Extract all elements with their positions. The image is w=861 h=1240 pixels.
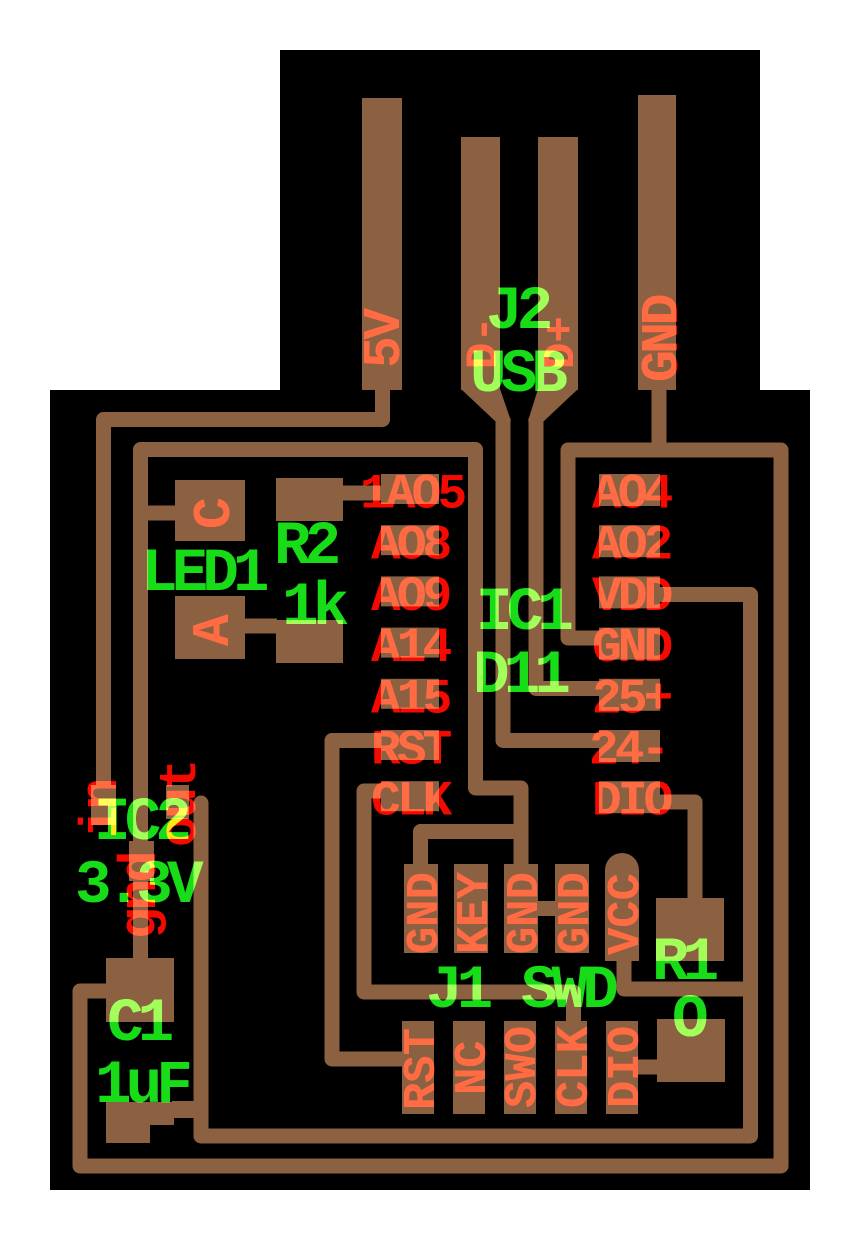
svg-text:CLK: CLK [371, 774, 453, 830]
svg-text:USB: USB [470, 341, 567, 410]
svg-text:DIO: DIO [592, 774, 672, 830]
svg-text:1uF: 1uF [95, 1052, 189, 1121]
svg-text:3.3V: 3.3V [75, 852, 204, 921]
svg-text:GND: GND [399, 872, 451, 954]
svg-text:C1: C1 [107, 990, 173, 1059]
svg-text:D11: D11 [473, 642, 569, 711]
svg-text:GND: GND [592, 620, 672, 676]
svg-text:1AO5: 1AO5 [360, 467, 466, 523]
svg-text:SWO: SWO [497, 1026, 549, 1108]
svg-text:KEY: KEY [449, 871, 501, 954]
svg-text:IC2: IC2 [94, 789, 189, 858]
svg-text:GND: GND [550, 872, 602, 954]
svg-text:24-: 24- [589, 723, 667, 779]
svg-text:RST: RST [396, 1028, 448, 1110]
svg-text:IC1: IC1 [476, 579, 572, 648]
svg-text:VCC: VCC [600, 873, 652, 955]
svg-text:5V: 5V [355, 308, 415, 368]
svg-text:A: A [184, 614, 244, 646]
svg-text:1k: 1k [282, 574, 348, 643]
svg-text:A14: A14 [371, 620, 452, 676]
svg-text:R2: R2 [274, 513, 339, 582]
svg-text:AO9: AO9 [371, 569, 450, 625]
svg-text:DIO: DIO [600, 1026, 652, 1108]
svg-text:A15: A15 [371, 671, 451, 727]
svg-text:C: C [185, 498, 245, 529]
svg-text:CLK: CLK [549, 1025, 601, 1108]
svg-text:RST: RST [371, 723, 452, 779]
svg-text:J1: J1 [426, 957, 492, 1026]
svg-text:LED1: LED1 [141, 540, 268, 609]
svg-text:25+: 25+ [592, 671, 672, 727]
svg-text:AO2: AO2 [592, 518, 671, 574]
svg-text:GND: GND [499, 872, 551, 954]
svg-text:SWD: SWD [521, 957, 617, 1026]
svg-text:GND: GND [633, 295, 693, 382]
svg-text:VDD: VDD [592, 569, 672, 625]
svg-text:AO4: AO4 [592, 467, 673, 523]
svg-text:NC: NC [447, 1040, 499, 1095]
svg-text:O: O [672, 986, 707, 1055]
svg-text:AO8: AO8 [371, 518, 451, 574]
svg-text:J2: J2 [486, 278, 551, 347]
